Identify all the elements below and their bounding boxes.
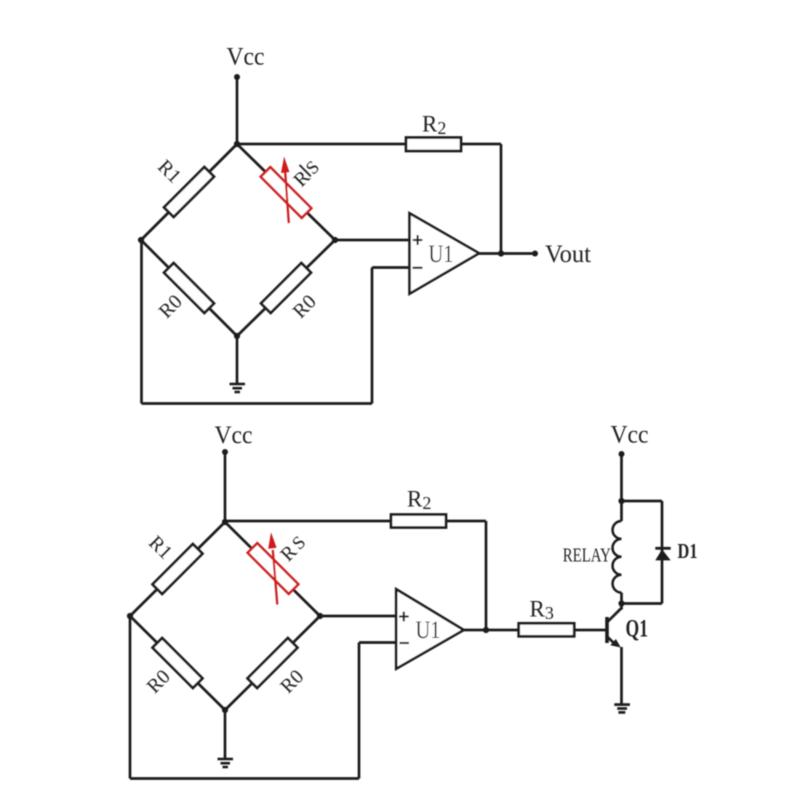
svg-text:R1: R1 <box>144 532 176 564</box>
svg-text:U1: U1 <box>429 241 454 268</box>
wire left node down <box>129 616 132 779</box>
op-amp U1 (top) <box>410 213 480 294</box>
node bridge bottom junction <box>234 333 240 339</box>
node Vcc (top circuit supply) <box>227 44 265 71</box>
svg-text:Vcc: Vcc <box>611 422 649 449</box>
wire bridge arm top-left <box>141 144 237 240</box>
wire diode branch vertical <box>661 501 664 604</box>
wire diode branch bottom <box>622 602 663 605</box>
resistor R2 <box>406 138 461 152</box>
diode D1 <box>655 549 670 560</box>
wire to inverting input <box>372 266 410 269</box>
node bridge top junction <box>222 519 228 525</box>
node bridge left junction <box>127 613 133 619</box>
node output junction <box>498 250 504 256</box>
svg-text:R3: R3 <box>530 597 554 624</box>
svg-text:R2: R2 <box>422 112 446 139</box>
resistor R0 (bottom-right arm) <box>261 263 311 313</box>
node bridge left junction <box>138 237 144 243</box>
svg-text:R0: R0 <box>143 666 175 698</box>
resistor R1 (bottom bridge) <box>153 544 203 594</box>
resistor R0 (bottom-right arm) <box>248 638 298 688</box>
svg-text:RELAY: RELAY <box>563 545 611 567</box>
node relay top junction <box>618 498 624 504</box>
svg-text:R0: R0 <box>155 291 187 323</box>
op-amp U1 (bottom) <box>396 589 464 669</box>
node Vcc (bottom bridge supply) <box>215 422 253 449</box>
svg-text:Q1: Q1 <box>626 616 649 643</box>
wire bridge arm top-left <box>130 522 225 616</box>
wire bridge top to R2 <box>225 520 486 523</box>
wire bridge arm bottom-left <box>141 240 237 336</box>
wire Vcc to bridge top <box>236 77 239 144</box>
wire bridge arm bottom-left <box>130 616 225 710</box>
wire bridge right node to non-inverting input <box>320 615 396 618</box>
ground (top circuit) <box>230 383 246 386</box>
wire bridge right node to non-inverting input <box>335 239 410 242</box>
svg-text:R0: R0 <box>289 291 321 323</box>
wire Vcc down to relay top node <box>620 454 623 521</box>
wire up to inverting input <box>358 643 361 779</box>
resistor R0 (bottom-left arm) <box>153 638 203 688</box>
wire op-amp output <box>479 252 535 255</box>
wire bridge top to R2 <box>237 143 501 146</box>
svg-text:Vout: Vout <box>545 241 591 268</box>
wire bridge bottom to ground <box>224 710 227 758</box>
node Vout terminal dot <box>532 251 538 257</box>
wire diode branch top <box>622 500 663 503</box>
wire R3 to transistor base <box>574 629 605 632</box>
wire relay bottom to collector node <box>620 593 623 604</box>
wire bridge arm top-right <box>237 144 335 240</box>
resistor R0 (bottom-left arm) <box>164 263 214 313</box>
node Vcc (relay supply) <box>611 422 649 449</box>
wire left node down <box>140 240 143 404</box>
resistor R2 (bottom) <box>391 515 446 528</box>
node Vout label <box>545 241 591 268</box>
resistor R1 <box>164 167 214 217</box>
Vcc terminal dot <box>234 74 240 80</box>
svg-text:R1: R1 <box>153 156 185 188</box>
node output junction <box>483 627 489 633</box>
svg-text:Vcc: Vcc <box>215 422 253 449</box>
node bridge right junction <box>332 237 338 243</box>
Rs wiper arrow <box>273 550 278 605</box>
Q1 collector <box>608 608 622 622</box>
ground (bottom bridge) <box>218 758 234 761</box>
node bridge right junction <box>317 613 323 619</box>
Q1 emitter <box>608 637 614 643</box>
svg-text:Vcc: Vcc <box>227 44 265 71</box>
resistor Rs (variable, red) <box>261 167 312 218</box>
resistor R3 <box>519 623 575 636</box>
wire up to inverting input <box>371 268 374 404</box>
svg-text:D1: D1 <box>678 539 698 563</box>
node relay bottom junction <box>618 600 624 606</box>
node bridge top junction <box>234 141 240 147</box>
wire Vcc to bridge top <box>224 452 227 522</box>
svg-text:U1: U1 <box>416 617 441 644</box>
wire bridge arm bottom-right <box>225 616 320 710</box>
wire bridge arm bottom-right <box>237 240 335 336</box>
svg-text:R0: R0 <box>276 666 308 698</box>
wire bottom feedback horizontal <box>142 402 373 405</box>
ground (transistor emitter) <box>614 703 630 706</box>
Vcc terminal dot <box>222 449 228 455</box>
wire op-amp output to base resistor <box>464 629 519 632</box>
wire bridge arm top-right <box>225 522 320 616</box>
Vcc terminal dot <box>619 451 625 457</box>
resistor Rs (variable, red, bottom bridge) <box>248 543 299 594</box>
transistor Q1 <box>605 617 609 643</box>
wire R2 down to output junction <box>485 521 488 630</box>
wire emitter to ground <box>620 647 623 704</box>
wire to inverting input <box>359 641 396 644</box>
wire bottom feedback horizontal <box>130 777 359 780</box>
node bridge bottom junction <box>222 707 228 713</box>
wire bridge bottom to ground <box>236 336 239 383</box>
svg-text:R2: R2 <box>407 487 431 514</box>
relay coil RELAY <box>613 521 622 593</box>
Rs wiper arrow <box>285 172 289 223</box>
wire R2 to output node (vertical) <box>500 144 503 254</box>
